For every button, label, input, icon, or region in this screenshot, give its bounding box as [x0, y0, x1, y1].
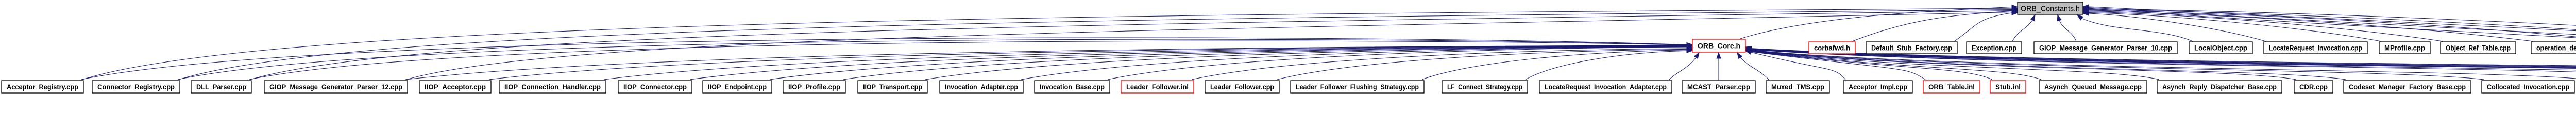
svg-text:operation_details.cpp: operation_details.cpp [2536, 44, 2576, 52]
edge MCAST_Parser.cpp -> ORB_Core.h [1717, 53, 1721, 80]
node GIOP_Message_Generator_Parser_10.cpp [2034, 42, 2177, 54]
svg-text:Asynch_Queued_Message.cpp: Asynch_Queued_Message.cpp [2044, 83, 2142, 91]
edge Default_Thread_Lane_Resources_Manager.cpp -> ORB_Core.h [1745, 48, 2576, 80]
svg-text:Codeset_Manager_Factory_Base.c: Codeset_Manager_Factory_Base.cpp [2349, 83, 2466, 91]
svg-text:Leader_Follower.inl: Leader_Follower.inl [1126, 83, 1189, 91]
svg-text:IIOP_Connection_Handler.cpp: IIOP_Connection_Handler.cpp [504, 83, 601, 91]
node MCAST_Parser.cpp [1682, 81, 1755, 93]
svg-text:ORB_Constants.h: ORB_Constants.h [2021, 4, 2080, 13]
node LF_Connect_Strategy.cpp [1442, 81, 1528, 93]
node LocalObject.cpp [2189, 42, 2252, 54]
node Invocation_Base.cpp [1035, 81, 1110, 93]
svg-text:Muxed_TMS.cpp: Muxed_TMS.cpp [1771, 83, 1824, 91]
edge LF_Connect_Strategy.cpp -> ORB_Core.h [1526, 49, 1692, 80]
svg-text:Acceptor_Registry.cpp: Acceptor_Registry.cpp [7, 83, 78, 91]
node Acceptor_Registry.cpp [2, 81, 83, 93]
node corbafwd.h [1809, 42, 1855, 54]
edge Invocation_Endpoint_Selectors.cpp -> ORB_Constants.h [2083, 6, 2576, 80]
edge LocateRequest_Invocation_Adapter.cpp -> ORB_Core.h [1669, 53, 1699, 80]
svg-text:DLL_Parser.cpp: DLL_Parser.cpp [196, 83, 246, 91]
svg-text:LF_Connect_Strategy.cpp: LF_Connect_Strategy.cpp [1447, 83, 1522, 91]
svg-text:Exception.cpp: Exception.cpp [1972, 44, 2016, 52]
edge ORBInitializer_Registry.cpp -> ORB_Constants.h [2083, 8, 2576, 41]
node ORB_Constants.h [2018, 2, 2083, 14]
node Collocated_Invocation.cpp [2482, 81, 2574, 93]
svg-text:Stub.inl: Stub.inl [1995, 83, 2021, 91]
svg-text:IIOP_Transport.cpp: IIOP_Transport.cpp [863, 83, 922, 91]
svg-text:IIOP_Endpoint.cpp: IIOP_Endpoint.cpp [708, 83, 767, 91]
edge Codeset_Manager_Factory_Base.cpp -> ORB_Core.h [1745, 49, 2346, 80]
svg-text:Leader_Follower_Flushing_Strat: Leader_Follower_Flushing_Strategy.cpp [1296, 83, 1419, 91]
edge IIOP_Acceptor.cpp -> ORB_Core.h [489, 43, 1692, 80]
edge LocalObject.cpp -> ORB_Constants.h [2077, 15, 2193, 41]
edge Acceptor_Registry.cpp -> ORB_Core.h [81, 38, 1692, 80]
edge Leader_Follower.cpp -> ORB_Core.h [1277, 47, 1692, 80]
node Muxed_TMS.cpp [1766, 81, 1829, 93]
node IIOP_Profile.cpp [783, 81, 845, 93]
edge GIOP_Message_Base.cpp -> ORB_Constants.h [2083, 6, 2576, 80]
node IIOP_Acceptor.cpp [419, 81, 491, 93]
node Stub.inl [1990, 81, 2026, 93]
svg-text:CDR.cpp: CDR.cpp [2299, 83, 2328, 91]
edge IIOP_Profile.cpp -> ORB_Core.h [843, 44, 1692, 80]
edge MProfile.cpp -> ORB_Constants.h [2083, 11, 2381, 42]
edge Leader_Follower.inl -> ORB_Core.h [1192, 47, 1692, 80]
svg-text:ORB_Core.h: ORB_Core.h [1698, 42, 1740, 50]
node Leader_Follower.inl [1121, 81, 1194, 93]
edge IIOP_Connection_Handler.cpp -> ORB_Core.h [604, 44, 1692, 80]
node Asynch_Reply_Dispatcher_Base.cpp [2157, 81, 2282, 93]
edge Exception.cpp -> ORB_Constants.h [2012, 15, 2035, 41]
svg-text:corbafwd.h: corbafwd.h [1814, 44, 1850, 52]
edge Acceptor_Registry.cpp -> ORB_Constants.h [82, 6, 2018, 80]
edge operation_details.cpp -> ORB_Constants.h [2083, 9, 2533, 42]
node Exception.cpp [1967, 42, 2022, 54]
svg-text:LocateRequest_Invocation.cpp: LocateRequest_Invocation.cpp [2269, 44, 2362, 52]
node Leader_Follower_Flushing_Strategy.cpp [1291, 81, 1424, 93]
edge ORB_Table.inl -> ORB_Core.h [1745, 50, 1925, 80]
edge Connection_Handler.cpp -> ORB_Core.h [1745, 48, 2576, 80]
edge Acceptor_Impl.cpp -> ORB_Core.h [1745, 50, 1845, 80]
svg-text:Connector_Registry.cpp: Connector_Registry.cpp [97, 83, 175, 91]
edge GIOP_Message_Generator_Parser_10.cpp -> ORB_Constants.h [2057, 15, 2076, 41]
svg-text:IIOP_Profile.cpp: IIOP_Profile.cpp [788, 83, 840, 91]
svg-text:Invocation_Adapter.cpp: Invocation_Adapter.cpp [945, 83, 1018, 91]
node GIOP_Message_Generator_Parser_12.cpp [264, 81, 408, 93]
svg-text:IIOP_Connector.cpp: IIOP_Connector.cpp [623, 83, 687, 91]
edge corbafwd.h -> ORB_Constants.h [1852, 9, 2018, 42]
node ORB_Core.h [1692, 39, 1745, 52]
edge CDR.cpp -> ORB_Core.h [1745, 49, 2296, 80]
svg-text:Invocation_Base.cpp: Invocation_Base.cpp [1040, 83, 1105, 91]
edge GIOP_Message_Generator_Parser_12.cpp -> ORB_Constants.h [406, 10, 2018, 80]
svg-text:Default_Stub_Factory.cpp: Default_Stub_Factory.cpp [1871, 44, 1952, 52]
edge GIOP_Message_Base.cpp -> ORB_Core.h [1745, 47, 2576, 80]
node Leader_Follower.cpp [1205, 81, 1279, 93]
edge Endpoint.cpp -> ORB_Core.h [1745, 48, 2576, 80]
edge Default_Stub_Factory.cpp -> ORB_Constants.h [1954, 11, 2018, 41]
edge Asynch_Reply_Dispatcher_Base.cpp -> ORB_Core.h [1745, 49, 2159, 80]
edge Environment.cpp -> ORB_Core.h [1745, 47, 2576, 80]
edge Stub.inl -> ORB_Core.h [1745, 50, 1992, 80]
edge Service_Callbacks.cpp -> ORB_Constants.h [2083, 8, 2576, 42]
edge Synch_Invocation.cpp -> ORB_Core.h [1745, 47, 2576, 80]
edge ORB_Core.h -> ORB_Constants.h [1740, 5, 2018, 39]
node Invocation_Adapter.cpp [940, 81, 1023, 93]
edge Invocation_Endpoint_Selectors.cpp -> ORB_Core.h [1745, 47, 2576, 80]
node Asynch_Queued_Message.cpp [2039, 81, 2147, 93]
svg-text:Acceptor_Impl.cpp: Acceptor_Impl.cpp [1849, 83, 1907, 91]
node Codeset_Manager_Factory_Base.cpp [2344, 81, 2471, 93]
edge Invocation_Adapter.cpp -> ORB_Core.h [1021, 45, 1692, 80]
node Acceptor_Impl.cpp [1843, 81, 1912, 93]
svg-text:Collocated_Invocation.cpp: Collocated_Invocation.cpp [2487, 83, 2569, 91]
node IIOP_Connector.cpp [618, 81, 692, 93]
svg-text:GIOP_Message_Generator_Parser_: GIOP_Message_Generator_Parser_12.cpp [269, 83, 402, 91]
node Default_Stub_Factory.cpp [1866, 42, 1957, 54]
svg-text:Object_Ref_Table.cpp: Object_Ref_Table.cpp [2446, 44, 2511, 52]
node IIOP_Connection_Handler.cpp [499, 81, 606, 93]
svg-text:LocateRequest_Invocation_Adapt: LocateRequest_Invocation_Adapter.cpp [1545, 83, 1667, 91]
svg-text:MProfile.cpp: MProfile.cpp [2384, 44, 2425, 52]
edge Object_Ref_Table.cpp -> ORB_Constants.h [2083, 10, 2443, 41]
svg-text:Asynch_Reply_Dispatcher_Base.c: Asynch_Reply_Dispatcher_Base.cpp [2162, 83, 2277, 91]
edge Fault_Tolerance_Service.cpp -> ORB_Core.h [1745, 47, 2576, 80]
edge CORBALOC_Parser.cpp -> ORB_Core.h [1745, 48, 2576, 80]
edge Synch_Invocation.cpp -> ORB_Constants.h [2083, 5, 2576, 80]
edge SystemException.cpp -> ORB_Constants.h [2083, 7, 2576, 41]
edge Leader_Follower_Flushing_Strategy.cpp -> ORB_Core.h [1422, 48, 1692, 80]
edge IIOP_Endpoint.cpp -> ORB_Core.h [770, 44, 1692, 80]
edge GIOP_Message_Generator_Parser_12.cpp -> ORB_Core.h [405, 43, 1692, 80]
node DLL_Parser.cpp [191, 81, 251, 93]
edge IIOP_Transport.cpp -> ORB_Core.h [925, 44, 1692, 80]
svg-text:LocalObject.cpp: LocalObject.cpp [2194, 44, 2247, 52]
edge Connector_Registry.cpp -> ORB_Core.h [178, 39, 1692, 80]
svg-text:MCAST_Parser.cpp: MCAST_Parser.cpp [1687, 83, 1750, 91]
edge Invocation_Base.cpp -> ORB_Core.h [1108, 45, 1692, 80]
node Object_Ref_Table.cpp [2441, 42, 2516, 54]
node IIOP_Endpoint.cpp [703, 81, 772, 93]
edge LocateRequest_Invocation.cpp -> ORB_Constants.h [2083, 11, 2266, 41]
node CDR.cpp [2294, 81, 2333, 93]
edge Muxed_TMS.cpp -> ORB_Core.h [1737, 53, 1769, 80]
edge DLL_Parser.cpp -> ORB_Constants.h [250, 9, 2018, 80]
node IIOP_Transport.cpp [858, 81, 927, 93]
edge DLL_Parser.cpp -> ORB_Core.h [249, 41, 1692, 80]
node operation_details.cpp [2531, 42, 2576, 54]
svg-text:IIOP_Acceptor.cpp: IIOP_Acceptor.cpp [425, 83, 486, 91]
node MProfile.cpp [2379, 42, 2430, 54]
edge Collocated_Invocation.cpp -> ORB_Core.h [1745, 48, 2484, 80]
node Connector_Registry.cpp [92, 81, 180, 93]
svg-text:GIOP_Message_Generator_Parser_: GIOP_Message_Generator_Parser_10.cpp [2039, 44, 2172, 52]
node ORB_Table.inl [1923, 81, 1980, 93]
svg-text:ORB_Table.inl: ORB_Table.inl [1928, 83, 1975, 91]
edge Asynch_Queued_Message.cpp -> ORB_Core.h [1745, 49, 2041, 80]
svg-text:Leader_Follower.cpp: Leader_Follower.cpp [1210, 83, 1274, 91]
node LocateRequest_Invocation_Adapter.cpp [1539, 81, 1672, 93]
edge Connector_Registry.cpp -> ORB_Constants.h [179, 8, 2018, 80]
edge IIOP_Connector.cpp -> ORB_Core.h [690, 44, 1692, 80]
node LocateRequest_Invocation.cpp [2264, 42, 2367, 54]
